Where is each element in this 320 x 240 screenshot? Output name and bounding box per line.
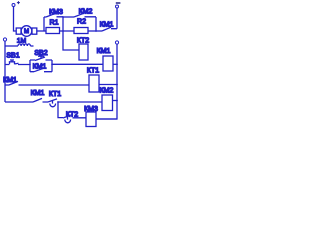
svg-text:КМ2: КМ2 bbox=[79, 9, 93, 16]
field winding stub end bbox=[30, 45, 33, 47]
terminal plus bbox=[12, 4, 15, 7]
coil KT2 bbox=[79, 44, 88, 60]
motor brush left bbox=[16, 28, 21, 34]
svg-text:КТ2: КТ2 bbox=[66, 112, 78, 119]
svg-text:R1: R1 bbox=[50, 20, 59, 27]
field winding arcs bbox=[18, 44, 30, 46]
contact KM2 (shunt contact over R2) bbox=[74, 13, 96, 17]
wire KM3 coil to rail corner bbox=[96, 118, 117, 120]
minus sign label bbox=[116, 2, 121, 4]
coil KM3 bbox=[86, 112, 96, 127]
parallel pair risers bbox=[30, 60, 52, 72]
contact KM3 (shunt contact over R1) bbox=[44, 13, 63, 17]
junction node between stages, riser down to KT2 coil bbox=[63, 17, 79, 50]
svg-text:КТ1: КТ1 bbox=[49, 91, 61, 98]
resistor R2 bbox=[74, 28, 88, 34]
junction dots of parallel pair bbox=[29, 64, 31, 66]
contact KM1 (row 3) bbox=[5, 81, 89, 85]
coil KM2 bbox=[102, 95, 113, 111]
wire KT1 coil to rail bbox=[99, 84, 117, 86]
field winding wire and coil of motor bbox=[5, 45, 18, 47]
riser wire left of KM3/R1 bbox=[43, 17, 45, 31]
button SB2 (start, NO) bbox=[30, 56, 52, 60]
right control rail bbox=[96, 44, 117, 119]
svg-text:R2: R2 bbox=[77, 19, 86, 26]
riser wire right of KM2/R2 bbox=[95, 17, 97, 31]
svg-text:КТ2: КТ2 bbox=[77, 38, 89, 45]
wire contact row KM3 to KM2 bbox=[63, 16, 74, 18]
contact KM1 (bottom row) bbox=[33, 98, 48, 102]
svg-text:КМ3: КМ3 bbox=[84, 106, 98, 113]
svg-text:SB1: SB1 bbox=[6, 53, 19, 60]
wire R1 to mid junction bbox=[60, 30, 75, 32]
svg-text:КМ1: КМ1 bbox=[97, 48, 111, 55]
resistor R1 bbox=[46, 28, 60, 34]
motor M1 circle bbox=[21, 26, 32, 37]
wire R2 to KM1 contact bbox=[88, 30, 102, 32]
svg-text:КМ1: КМ1 bbox=[33, 63, 47, 70]
contact KM1 aux (self hold) bbox=[30, 68, 52, 71]
svg-text:КМ2: КМ2 bbox=[100, 88, 114, 95]
svg-text:КТ1: КТ1 bbox=[87, 68, 99, 75]
svg-text:КМ3: КМ3 bbox=[49, 9, 63, 16]
wire from plus terminal down to motor row bbox=[14, 7, 17, 32]
wire KM2 coil to rail bbox=[113, 100, 118, 102]
branch down from junction to KT2 contact row bbox=[58, 102, 63, 118]
svg-text:М: М bbox=[24, 29, 29, 35]
coil KT1 bbox=[89, 75, 99, 92]
svg-text:КМ1: КМ1 bbox=[31, 90, 45, 97]
wire pair to KM1 coil bbox=[52, 63, 103, 65]
terminal minus bbox=[116, 5, 119, 8]
wire KM1 coil to right rail bbox=[113, 63, 117, 65]
contact KM1 (main line contact) bbox=[102, 27, 117, 31]
timed contact KT1 bbox=[48, 99, 57, 107]
button SB1 (stop, NC) bbox=[5, 60, 30, 65]
svg-text:КМ1: КМ1 bbox=[3, 77, 17, 84]
coil KM1 bbox=[103, 56, 113, 71]
plus sign label bbox=[17, 1, 20, 4]
bottom row from left rail corner bbox=[5, 101, 33, 103]
timed contact KT2 bbox=[63, 115, 86, 123]
svg-text:КМ1: КМ1 bbox=[100, 22, 114, 29]
left control rail bbox=[4, 41, 6, 102]
wire minus terminal down to KM1 contact bbox=[116, 8, 118, 29]
junction and wire to KM2 coil bbox=[57, 101, 59, 103]
field winding terminal (left control terminal) bbox=[3, 38, 6, 41]
motor brush right bbox=[32, 28, 37, 34]
right control terminal bbox=[115, 41, 118, 44]
wire motor to R1 riser bbox=[37, 30, 46, 32]
